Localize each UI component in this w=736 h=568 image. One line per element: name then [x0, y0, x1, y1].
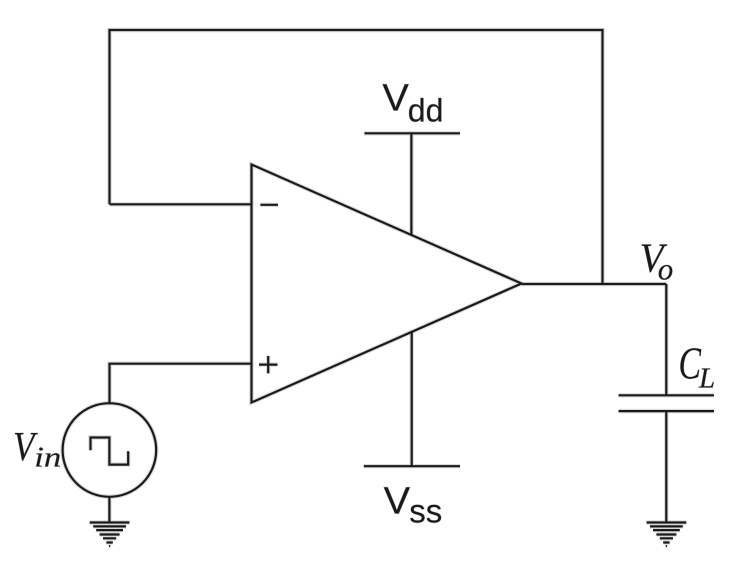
- wire output to capacitor: [665, 284, 667, 395]
- wire feedback loop from output node to inverting input: [110, 30, 603, 284]
- svg-text:ss: ss: [409, 493, 442, 530]
- wire Vss stem: [411, 331, 413, 466]
- wire inverting input: [110, 203, 252, 205]
- Vss supply bar: [364, 465, 460, 467]
- svg-text:L: L: [698, 362, 715, 394]
- ground dot below V_in: [109, 545, 110, 547]
- op-amp U1 plus pin label: [259, 356, 278, 374]
- svg-text:o: o: [658, 252, 674, 287]
- wire noninverting input: [110, 364, 252, 405]
- svg-text:in: in: [34, 442, 61, 474]
- wire capacitor to ground: [665, 411, 667, 522]
- svg-text:V: V: [382, 78, 409, 120]
- ground dot below C_L: [666, 545, 667, 547]
- svg-text:C: C: [679, 339, 702, 389]
- ground below C_L: [647, 523, 687, 543]
- svg-text:dd: dd: [408, 93, 444, 129]
- op-amp U1 minus pin label: [260, 204, 278, 206]
- capacitor C_L: [619, 395, 715, 411]
- ground below V_in: [90, 523, 130, 543]
- wire source to ground: [108, 497, 110, 523]
- Vdd supply bar: [364, 132, 460, 134]
- wire Vdd stem: [410, 133, 412, 235]
- source V_in square-wave symbol: [91, 438, 129, 465]
- svg-text:V: V: [384, 480, 411, 522]
- source V_in circle: [63, 403, 157, 497]
- wire output: [522, 283, 667, 285]
- op-amp U1: [252, 165, 522, 403]
